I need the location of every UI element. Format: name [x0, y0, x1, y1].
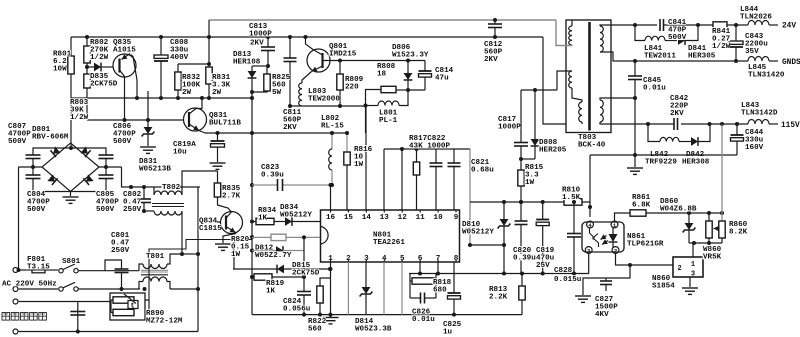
resistor R822 [320, 278, 331, 286]
svg-text:2CK75D: 2CK75D [90, 81, 118, 89]
transformer T801 bottom winding [139, 282, 143, 290]
svg-text:2KV: 2KV [250, 40, 264, 48]
inductor L845 [748, 57, 769, 62]
capacitor C821b pin9 [453, 149, 455, 163]
svg-text:A1015: A1015 [113, 47, 136, 55]
transformer T802 core [152, 203, 184, 205]
wire y149 line [384, 148, 470, 150]
capacitor C819 [542, 202, 544, 220]
transformer T803 box [566, 20, 611, 133]
capacitor C808 [160, 37, 162, 55]
svg-text:W04Z6.8B: W04Z6.8B [660, 206, 697, 214]
svg-text:BUL711B: BUL711B [209, 120, 241, 128]
wire +310V rail y37 [71, 36, 543, 38]
inductor L844 [748, 21, 769, 25]
pin ticks bottom [330, 260, 332, 263]
svg-text:2KV: 2KV [283, 124, 297, 132]
capacitor C823 [277, 179, 279, 191]
svg-text:1W: 1W [231, 251, 241, 259]
capacitor C804 [32, 167, 34, 175]
capacitor C817 [520, 90, 522, 143]
svg-text:S801: S801 [62, 258, 81, 266]
wire opto pin3 down [588, 253, 590, 273]
wire T801 bottom right [170, 288, 198, 290]
wire R890 right path [145, 300, 149, 313]
svg-text:500V: 500V [96, 206, 115, 214]
inductor L843 [748, 120, 769, 125]
wire x635 down [634, 98, 636, 167]
wire right vertex line [99, 166, 122, 168]
svg-text:500V: 500V [8, 138, 27, 146]
svg-text:115V: 115V [781, 122, 800, 130]
capacitor C828 [573, 202, 575, 234]
wire T802 feed [122, 167, 201, 187]
svg-text:160V: 160V [745, 144, 764, 152]
resistor R818 [409, 274, 411, 299]
resistor R835 [217, 171, 219, 183]
capacitor C825 pin8 [453, 262, 455, 293]
capacitor C812 [494, 20, 496, 24]
svg-text:10u: 10u [173, 149, 187, 157]
svg-text:1W: 1W [525, 179, 535, 187]
wiper arrow W860 [714, 228, 720, 230]
transistor Q834 [221, 212, 243, 234]
svg-text:1/2W: 1/2W [90, 54, 109, 62]
pin ticks top [455, 210, 457, 213]
wire R835 top link [182, 171, 218, 187]
wire Q801 base right [323, 60, 341, 62]
svg-text:0.015u: 0.015u [554, 276, 582, 284]
svg-text:0.39u: 0.39u [513, 255, 536, 263]
svg-text:1W: 1W [354, 161, 364, 169]
node dots rail37 [288, 35, 292, 39]
wire snubber node y66 [252, 65, 268, 67]
capacitor C813 [267, 37, 269, 47]
diode D835 [87, 66, 94, 68]
svg-text:220: 220 [345, 84, 359, 92]
bridge diodes [50, 146, 60, 157]
svg-text:18: 18 [377, 71, 387, 79]
diode D841 [678, 36, 685, 45]
optocoupler N861 box [582, 222, 624, 252]
wire degauss riser [19, 302, 78, 332]
svg-text:560: 560 [308, 326, 322, 334]
capacitor C842 [673, 118, 675, 130]
svg-text:0.68u: 0.68u [471, 167, 494, 175]
svg-text:RBV-606M: RBV-606M [32, 134, 69, 142]
resistor R802 [86, 37, 88, 46]
wire pin4 down [383, 262, 385, 315]
wire pin13 up [383, 149, 385, 210]
wire x198 vertical [197, 187, 199, 332]
svg-text:TEW2000: TEW2000 [308, 96, 340, 104]
capacitor C822 pin10 [435, 149, 437, 163]
svg-text:2W: 2W [182, 89, 192, 97]
ground x635 [627, 167, 643, 169]
transformer T801 core [141, 269, 168, 271]
wire +310V top rail y20 [209, 19, 556, 21]
inductor L842 branch [648, 125, 660, 142]
optocoupler pin3 [585, 247, 592, 254]
resistor R820 [252, 236, 271, 238]
capacitor C807 [33, 148, 71, 155]
svg-text:1: 1 [691, 261, 695, 269]
transformer T803 primary top [571, 20, 573, 26]
inductor L802 [331, 133, 333, 149]
transformer T803 core [588, 22, 591, 131]
svg-text:2KV: 2KV [484, 56, 498, 64]
capacitor C826 [410, 297, 421, 299]
wire bridge bottom ground [70, 192, 72, 197]
transistor Q801 [307, 49, 330, 72]
zener D831 [147, 91, 149, 127]
wire Q834 emitter [223, 234, 236, 244]
resistor R831 [208, 37, 210, 64]
transistor Q835 [113, 54, 136, 77]
wire pin7 down [437, 262, 439, 274]
svg-text:500V: 500V [27, 206, 46, 214]
resistor R801 [70, 37, 72, 56]
svg-text:MZ72-12M: MZ72-12M [146, 318, 183, 326]
svg-text:0.39u: 0.39u [261, 172, 284, 180]
transformer T803 sec bottom [600, 100, 603, 122]
svg-text:W05Z2.7Y: W05Z2.7Y [255, 252, 292, 260]
resistor R809 [338, 59, 342, 63]
wire collector rail y98 [71, 97, 252, 99]
wire pin14 up [365, 106, 367, 210]
svg-text:6.8K: 6.8K [632, 202, 651, 210]
transformer T803 sec top [600, 26, 603, 52]
svg-text:12: 12 [398, 214, 408, 222]
svg-text:TLN3142D: TLN3142D [741, 110, 778, 118]
svg-text:250V: 250V [123, 206, 142, 214]
thermistor R890 elements [113, 297, 134, 303]
svg-text:2CK75D: 2CK75D [292, 270, 320, 278]
resistor R813 [521, 274, 523, 287]
wire link x182-x198 [182, 253, 198, 255]
resistor R808 [396, 89, 408, 91]
wire pin2 down [347, 262, 349, 315]
svg-text:HER305: HER305 [688, 53, 716, 61]
wire bus x252 lower [251, 237, 253, 315]
ground C827 [575, 295, 591, 297]
svg-text:14: 14 [362, 214, 372, 222]
wire bridge top [70, 143, 72, 148]
svg-text:W05212Y: W05212Y [280, 212, 312, 220]
svg-text:HER205: HER205 [539, 147, 567, 155]
svg-text:2.2K: 2.2K [489, 294, 508, 302]
node dot rail37 x268 [266, 35, 270, 39]
resistor R803 [86, 67, 88, 74]
resistor R817 pin11 [416, 149, 418, 162]
svg-text:PL-1: PL-1 [379, 117, 398, 125]
svg-text:2KV: 2KV [670, 110, 684, 118]
resistor R861 [630, 210, 646, 216]
transformer T802 top winding [153, 187, 155, 191]
wire 115V line [648, 123, 674, 125]
capacitor C827 [605, 278, 607, 281]
svg-text:HER108: HER108 [233, 59, 261, 67]
svg-text:TRF9229: TRF9229 [645, 159, 677, 167]
svg-text:35V: 35V [745, 48, 759, 56]
svg-text:47u: 47u [435, 75, 449, 83]
svg-text:24V: 24V [782, 23, 796, 31]
resistor R841 [713, 22, 727, 28]
transformer T803 fb winding [557, 71, 572, 90]
thermistor R890 box [110, 293, 145, 320]
svg-text:4KV: 4KV [595, 311, 609, 319]
regulator N860 S1854 box [673, 257, 703, 277]
svg-text:43K 1000P: 43K 1000P [409, 143, 450, 151]
svg-text:S1854: S1854 [652, 283, 675, 291]
diode D815 branch [233, 237, 235, 269]
diode D812 [252, 250, 276, 252]
svg-text:400V: 400V [170, 54, 189, 62]
svg-text:W05212Y: W05212Y [462, 229, 494, 237]
optocoupler N861 internals [612, 227, 614, 234]
svg-text:16: 16 [326, 214, 336, 222]
svg-text:AC 220V 50Hz: AC 220V 50Hz [2, 281, 57, 289]
wire L801 left down [365, 106, 367, 134]
resistor R825 [266, 66, 268, 74]
wire base line y120 [87, 119, 183, 121]
wire S1854 pin3 down [689, 277, 691, 287]
wire pin3 junction dots [572, 272, 576, 276]
svg-text:C1815: C1815 [199, 225, 222, 233]
resistor R810 [564, 199, 582, 205]
svg-text:680: 680 [433, 287, 447, 295]
wire corner rail y20 to y37 at x209 [208, 20, 210, 37]
svg-text:0.01u: 0.01u [643, 85, 666, 93]
svg-text:15: 15 [344, 214, 354, 222]
resistor R832 [177, 64, 179, 72]
ground S1854 [682, 287, 698, 289]
capacitor C820 [520, 202, 522, 221]
svg-text:C828: C828 [554, 267, 573, 275]
wire fb node [521, 89, 557, 91]
svg-text:1K: 1K [258, 215, 268, 223]
svg-text:2: 2 [678, 265, 682, 273]
text degauss coil chinese [2, 313, 10, 321]
op-amp U1 IC N801 TEA2261 box [321, 210, 460, 262]
capacitor C802 [143, 187, 145, 199]
capacitor C811 [289, 37, 291, 58]
capacitor C844 [736, 124, 738, 135]
wire C827 line [583, 265, 630, 295]
wire 24V line [635, 24, 657, 26]
wire L803 bottom line [290, 105, 366, 107]
wire pin6 down [419, 262, 421, 274]
svg-text:IMD215: IMD215 [329, 51, 357, 59]
wire left bus x252 [251, 86, 253, 237]
optocoupler pin2 [612, 247, 619, 254]
svg-text:GNDS: GNDS [782, 59, 800, 67]
transformer T801 top winding [139, 264, 143, 271]
resistor R816 pin15 [346, 133, 348, 152]
inductor L803 [299, 83, 302, 106]
wire D815 line [233, 268, 277, 270]
svg-text:13: 13 [380, 214, 390, 222]
wire pin1 down [330, 262, 332, 317]
wire C844 return [635, 154, 737, 156]
wire pin16 up [330, 185, 332, 210]
svg-text:TEA2261: TEA2261 [373, 239, 405, 247]
wire Q834 base line [198, 221, 221, 223]
optocoupler pin1 [611, 221, 618, 228]
capacitor C814 [424, 61, 426, 72]
wire ac4 bottom line [19, 331, 198, 333]
svg-text:1/2W: 1/2W [70, 114, 89, 122]
svg-text:T3.15: T3.15 [27, 264, 50, 272]
wire ac1 line [19, 269, 32, 271]
wire C823 line [252, 184, 278, 186]
wire rail37 corner down x543 [543, 37, 566, 124]
transistor Q831 [184, 108, 207, 131]
resistor R815 [520, 159, 522, 170]
bridge rectifier D801 [42, 143, 99, 192]
svg-text:T802: T802 [162, 184, 181, 192]
terminal AC4 [13, 329, 18, 334]
diode D808 [534, 90, 536, 140]
inductor L801 [364, 104, 368, 108]
wire R890 left [78, 301, 111, 303]
wire primary bottom jog [556, 20, 572, 46]
diode D834 [285, 217, 292, 226]
svg-text:TEW2011: TEW2011 [644, 53, 676, 61]
terminal AC1 [13, 268, 18, 273]
wire R832 top link [178, 63, 209, 65]
svg-text:2.7K: 2.7K [222, 193, 241, 201]
svg-text:HER308: HER308 [682, 159, 710, 167]
wire AC live riser x18.5 [18, 167, 20, 270]
svg-text:TLP621GR: TLP621GR [627, 241, 664, 249]
wire emitter rail y133 [205, 132, 347, 134]
wire rail273 [409, 273, 589, 275]
svg-text:W05Z3.3B: W05Z3.3B [355, 326, 392, 334]
wire right branch x470 [469, 149, 471, 245]
svg-text:1.5K: 1.5K [562, 194, 581, 202]
resistor R834 [252, 221, 256, 223]
terminal AC2 [13, 287, 18, 292]
svg-text:0.056u: 0.056u [283, 306, 311, 314]
wire S1854 pin1 up [692, 243, 694, 257]
svg-text:8.2K: 8.2K [729, 229, 748, 237]
wire left vertex line [19, 166, 43, 168]
wire bottom bus y314 [252, 314, 522, 316]
svg-text:1000P: 1000P [498, 124, 521, 132]
node dots on x252 bus [250, 90, 254, 94]
capacitor C819A [216, 131, 220, 135]
potentiometer W860 [706, 221, 712, 238]
diode D842 [691, 137, 698, 146]
optocoupler pin4 [587, 221, 594, 228]
svg-text:0.01u: 0.01u [412, 316, 435, 324]
svg-text:VR5K: VR5K [703, 254, 722, 262]
svg-text:10: 10 [434, 214, 444, 222]
wire GNDS line [635, 60, 748, 62]
wire rail202 [470, 201, 564, 203]
svg-text:3: 3 [691, 271, 695, 279]
wire ac2 line [19, 288, 58, 290]
node dot c807 bottom [31, 165, 35, 169]
capacitor C806 [71, 148, 106, 155]
wire D806 line [340, 60, 425, 62]
capacitor C805 [105, 167, 107, 175]
svg-text:TLN31420: TLN31420 [748, 72, 785, 80]
svg-text:1u: 1u [443, 329, 453, 337]
svg-text:BCK-40: BCK-40 [578, 142, 606, 150]
wire opto anode up [589, 155, 591, 202]
svg-text:500V: 500V [113, 138, 132, 146]
capacitor C841 [659, 19, 661, 31]
svg-text:t: t [131, 303, 135, 311]
wire S1854 pin2 left [616, 253, 674, 265]
svg-text:11: 11 [416, 214, 426, 222]
zener D810 [503, 202, 505, 219]
resistor R819 [252, 276, 254, 278]
wire line270 to T801 [105, 270, 139, 272]
zener D814 [365, 262, 367, 287]
wire x304 riser [303, 237, 305, 277]
wire pin12 up [401, 149, 403, 210]
transformer T803 w3 winding [579, 102, 582, 122]
svg-text:RL-15: RL-15 [321, 123, 344, 131]
svg-text:2W: 2W [212, 89, 222, 97]
svg-text:T801: T801 [146, 253, 165, 261]
capacitor C801 [105, 260, 122, 271]
switch S801 pole1 [59, 269, 63, 273]
zener D860 [688, 213, 690, 223]
switch S801 pole2 [59, 287, 63, 291]
ground pin1 [323, 317, 339, 319]
capacitor C824 [303, 277, 305, 292]
diode D813 [251, 66, 253, 71]
transformer T802 bottom winding [144, 210, 154, 212]
wire line243 [689, 242, 722, 244]
svg-text:W05213B: W05213B [139, 166, 171, 174]
svg-text:W1523.3Y: W1523.3Y [392, 52, 429, 60]
svg-text:1/2W: 1/2W [712, 43, 731, 51]
fuse F801 [32, 267, 45, 273]
svg-text:25V: 25V [536, 262, 550, 270]
wire pin5 down [401, 262, 403, 315]
resistor R860 [721, 125, 723, 222]
capacitor C843 [735, 25, 737, 41]
terminal AC3 [13, 299, 18, 304]
svg-text:250V: 250V [111, 247, 130, 255]
svg-text:9: 9 [454, 214, 459, 222]
wire opto pin1 up [615, 213, 631, 221]
diode D806 [407, 61, 409, 74]
svg-text:10W: 10W [53, 66, 67, 74]
capacitor degauss [70, 311, 85, 313]
labels all [53, 50, 71, 57]
svg-text:1000P: 1000P [249, 31, 272, 39]
svg-text:1K: 1K [266, 288, 276, 296]
svg-text:500V: 500V [668, 34, 687, 42]
inductor L841 branch [635, 25, 645, 41]
capacitor C845 [634, 61, 636, 76]
svg-text:TLN2026: TLN2026 [740, 14, 772, 22]
svg-text:5W: 5W [272, 89, 282, 97]
